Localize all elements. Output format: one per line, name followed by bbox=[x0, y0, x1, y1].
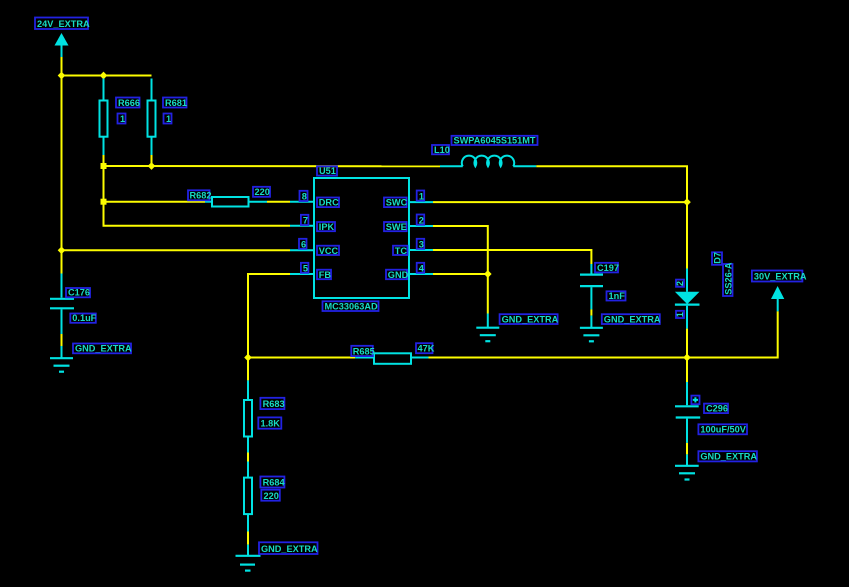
svg-text:SWPA6045S151MT: SWPA6045S151MT bbox=[454, 136, 536, 146]
wire R684 to ground bbox=[247, 532, 249, 545]
resistor R666 bbox=[100, 79, 108, 156]
svg-text:1: 1 bbox=[675, 312, 685, 317]
label U51 bbox=[317, 166, 337, 176]
pin number 5 bbox=[301, 263, 309, 274]
net label GND_EXTRA bbox=[259, 542, 318, 554]
pin 3 TC bbox=[409, 249, 433, 251]
resistor R683 bbox=[244, 380, 252, 452]
label R683 bbox=[260, 398, 284, 409]
svg-text:0.1uF: 0.1uF bbox=[72, 313, 96, 323]
pin name SWC bbox=[384, 198, 408, 208]
net label 30V_EXTRA bbox=[752, 271, 807, 282]
svg-text:100uF/50V: 100uF/50V bbox=[700, 425, 746, 435]
junction bbox=[244, 354, 252, 362]
junction bbox=[101, 163, 107, 169]
svg-text:GND_EXTRA: GND_EXTRA bbox=[261, 544, 318, 554]
svg-text:7: 7 bbox=[303, 216, 308, 226]
pin number 1 bbox=[417, 191, 425, 202]
wire main 24V vertical bbox=[61, 57, 63, 274]
pin number 4 bbox=[417, 263, 425, 274]
svg-text:SS26-A: SS26-A bbox=[723, 262, 733, 295]
svg-text:L10: L10 bbox=[434, 145, 450, 155]
wire R681 bottom bbox=[151, 155, 153, 166]
svg-text:IPK: IPK bbox=[319, 222, 335, 232]
svg-text:GND_EXTRA: GND_EXTRA bbox=[502, 314, 559, 324]
value 1 bbox=[118, 114, 126, 125]
value 1nF bbox=[607, 291, 626, 301]
power symbol 24V_EXTRA arrow bbox=[55, 33, 69, 57]
label C197 bbox=[595, 263, 619, 273]
net label GND_EXTRA bbox=[602, 314, 661, 324]
pin 2 SWE bbox=[409, 225, 433, 227]
svg-text:R685: R685 bbox=[353, 346, 375, 356]
pin 4 GND bbox=[409, 273, 433, 275]
ground IC bbox=[476, 314, 499, 342]
wire R682 to pin8 bbox=[267, 201, 290, 203]
svg-text:47K: 47K bbox=[418, 344, 435, 354]
svg-text:R681: R681 bbox=[165, 98, 187, 108]
capacitor C296 bbox=[675, 382, 700, 443]
svg-text:220: 220 bbox=[255, 187, 270, 197]
wire diode to junction bbox=[686, 329, 688, 358]
wire SWC to right rail bbox=[433, 201, 687, 203]
label C176 bbox=[66, 288, 90, 298]
pin name VCC bbox=[317, 246, 339, 256]
pin 6 VCC bbox=[290, 249, 314, 251]
pin name TC bbox=[393, 246, 408, 256]
svg-text:VCC: VCC bbox=[319, 246, 339, 256]
pin number 6 bbox=[299, 239, 307, 250]
junction bbox=[683, 354, 691, 362]
wire C296 to ground bbox=[686, 443, 688, 455]
net label GND_EXTRA bbox=[73, 344, 132, 354]
svg-text:1: 1 bbox=[166, 114, 171, 124]
pin 7 IPK bbox=[290, 225, 314, 227]
wire top rail to inductor bbox=[104, 165, 441, 167]
svg-text:MC33063AD: MC33063AD bbox=[325, 302, 378, 312]
value 220 bbox=[253, 187, 270, 197]
pin name SWE bbox=[384, 222, 407, 232]
label C296 bbox=[704, 404, 728, 414]
svg-text:GND_EXTRA: GND_EXTRA bbox=[75, 344, 132, 354]
wire top bar to R666/R681 bbox=[62, 75, 152, 77]
svg-text:GND_EXTRA: GND_EXTRA bbox=[700, 452, 757, 462]
svg-text:C197: C197 bbox=[597, 263, 619, 273]
ground C296 bbox=[675, 454, 699, 479]
diode D7 bbox=[675, 269, 700, 329]
svg-text:3: 3 bbox=[419, 240, 424, 250]
pin name DRC bbox=[317, 198, 339, 208]
label R666 bbox=[116, 98, 140, 109]
value 100uF/50V bbox=[698, 424, 747, 434]
svg-text:R683: R683 bbox=[263, 399, 285, 409]
svg-text:C176: C176 bbox=[68, 288, 90, 298]
pin 8 DRC bbox=[290, 201, 314, 203]
wire C197 to ground bbox=[590, 309, 592, 315]
junction bbox=[484, 270, 492, 278]
label MC33063AD bbox=[323, 301, 379, 311]
svg-text:GND_EXTRA: GND_EXTRA bbox=[604, 314, 661, 324]
wire R683 to R684 bbox=[247, 453, 249, 462]
svg-text:SWE: SWE bbox=[386, 222, 407, 232]
label R684 bbox=[260, 477, 285, 488]
svg-text:R666: R666 bbox=[118, 98, 140, 108]
net label GND_EXTRA bbox=[698, 451, 757, 462]
svg-text:8: 8 bbox=[302, 192, 307, 202]
svg-text:C296: C296 bbox=[706, 404, 728, 414]
diode pin number 1 bbox=[675, 311, 685, 318]
wire right rail to C296 bbox=[686, 358, 688, 383]
junction bbox=[58, 246, 66, 254]
resistor R682 bbox=[205, 197, 267, 207]
capacitor C197 bbox=[580, 264, 603, 309]
resistor R685 bbox=[355, 353, 428, 364]
svg-text:SWC: SWC bbox=[386, 198, 408, 208]
resistor R684 bbox=[244, 462, 252, 532]
svg-text:R682: R682 bbox=[190, 191, 212, 201]
value SS26-A bbox=[723, 262, 733, 296]
net label 24V_EXTRA bbox=[35, 18, 90, 30]
pin name FB bbox=[317, 270, 331, 280]
diode pin number 2 bbox=[675, 280, 685, 287]
value 220 bbox=[261, 490, 280, 501]
junction bbox=[101, 199, 107, 205]
svg-text:R684: R684 bbox=[263, 478, 286, 488]
pin number 2 bbox=[417, 215, 425, 226]
wire left branch down to IPK bbox=[104, 166, 291, 226]
wire TC to C197 bbox=[433, 250, 591, 264]
resistor R681 bbox=[148, 79, 156, 156]
svg-text:D7: D7 bbox=[712, 252, 722, 264]
wire junction down to R683 bbox=[247, 358, 249, 381]
svg-text:5: 5 bbox=[303, 264, 308, 274]
wire SWE down bbox=[433, 226, 488, 314]
svg-text:6: 6 bbox=[301, 240, 306, 250]
ground C197 bbox=[580, 316, 603, 342]
svg-text:DRC: DRC bbox=[319, 198, 339, 208]
label R685 bbox=[351, 346, 374, 357]
wire R666 bottom bbox=[103, 155, 105, 166]
pin name IPK bbox=[317, 222, 335, 232]
net label GND_EXTRA bbox=[500, 314, 559, 324]
capacitor C176 bbox=[50, 274, 74, 335]
op-amp U51 body MC33063AD bbox=[314, 178, 409, 298]
pin 5 FB bbox=[290, 273, 314, 275]
plus sign C296 bbox=[691, 396, 699, 405]
svg-text:2: 2 bbox=[675, 281, 685, 286]
svg-text:GND: GND bbox=[388, 270, 409, 280]
ground R684 bbox=[236, 545, 261, 571]
label D7 bbox=[712, 252, 722, 265]
wire inductor to right rail, down to diode bbox=[536, 166, 687, 268]
svg-text:30V_EXTRA: 30V_EXTRA bbox=[754, 272, 807, 282]
svg-text:1: 1 bbox=[120, 114, 125, 124]
svg-text:2: 2 bbox=[419, 215, 424, 225]
wire FB bbox=[248, 274, 290, 358]
svg-text:220: 220 bbox=[264, 491, 279, 501]
svg-text:1: 1 bbox=[419, 191, 424, 201]
value 1.8K bbox=[258, 417, 281, 428]
junction bbox=[100, 72, 108, 80]
junction bbox=[148, 162, 156, 170]
pin number 7 bbox=[301, 215, 309, 226]
svg-text:4: 4 bbox=[419, 264, 425, 274]
wire R685 to right junction bbox=[429, 357, 688, 359]
pin name GND bbox=[386, 270, 409, 280]
ground C176 bbox=[50, 346, 73, 372]
svg-text:1.8K: 1.8K bbox=[261, 419, 281, 429]
pin number 8 bbox=[300, 191, 308, 202]
pin number 3 bbox=[417, 239, 425, 250]
power symbol 30V_EXTRA arrow bbox=[771, 286, 784, 311]
value 0.1uF bbox=[70, 313, 96, 323]
junction bbox=[683, 198, 691, 206]
svg-text:24V_EXTRA: 24V_EXTRA bbox=[37, 19, 90, 29]
inductor L10 bbox=[440, 156, 536, 167]
junction bbox=[58, 72, 66, 80]
wire GND pin bbox=[433, 273, 488, 275]
wire VCC bbox=[62, 249, 291, 251]
value 1 bbox=[164, 114, 172, 125]
wire C176 to ground bbox=[61, 334, 63, 346]
value 47K bbox=[416, 343, 435, 353]
label R682 bbox=[188, 190, 211, 200]
label L10 bbox=[432, 145, 450, 155]
wire 30V to junction bbox=[687, 311, 778, 357]
pin 1 SWC bbox=[409, 201, 433, 203]
svg-text:TC: TC bbox=[395, 246, 408, 256]
wire DRC to R682 bbox=[104, 201, 206, 203]
wire FB junction to R685 bbox=[248, 357, 355, 359]
value SWPA6045S151MT bbox=[452, 136, 538, 146]
svg-text:FB: FB bbox=[319, 270, 332, 280]
label R681 bbox=[163, 98, 187, 109]
svg-text:U51: U51 bbox=[319, 166, 336, 176]
svg-text:1nF: 1nF bbox=[609, 291, 626, 301]
